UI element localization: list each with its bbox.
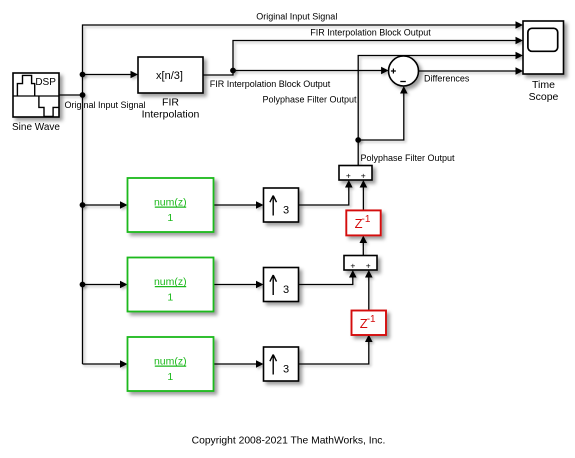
svg-text:3: 3 [283,284,289,296]
svg-text:1: 1 [167,371,173,383]
svg-text:Polyphase Filter Output: Polyphase Filter Output [360,153,455,163]
svg-text:Original Input Signal: Original Input Signal [256,12,337,22]
svg-text:Sine Wave: Sine Wave [12,122,60,133]
svg-text:Original Input Signal: Original Input Signal [64,100,145,110]
svg-text:Polyphase Filter Output: Polyphase Filter Output [262,95,357,105]
svg-text:Interpolation: Interpolation [142,108,200,120]
svg-text:x[n/3]: x[n/3] [156,70,183,82]
svg-text:+: + [361,171,366,181]
svg-text:1: 1 [167,212,173,224]
svg-text:3: 3 [283,364,289,376]
svg-text:Scope: Scope [529,91,559,103]
svg-text:3: 3 [283,205,289,217]
svg-text:+: + [350,261,355,271]
svg-text:DSP: DSP [35,77,56,88]
svg-text:Copyright 2008-2021 The MathWo: Copyright 2008-2021 The MathWorks, Inc. [192,436,386,447]
svg-text:-1: -1 [362,214,371,225]
svg-text:FIR Interpolation Block Output: FIR Interpolation Block Output [310,28,431,38]
svg-text:Time: Time [532,79,555,91]
svg-text:1: 1 [167,291,173,303]
svg-text:-1: -1 [367,314,376,325]
svg-text:Differences: Differences [424,74,470,84]
svg-text:FIR Interpolation Block Output: FIR Interpolation Block Output [210,79,331,89]
svg-text:+: + [366,261,371,271]
svg-text:FIR: FIR [162,97,179,109]
svg-text:+: + [346,171,351,181]
